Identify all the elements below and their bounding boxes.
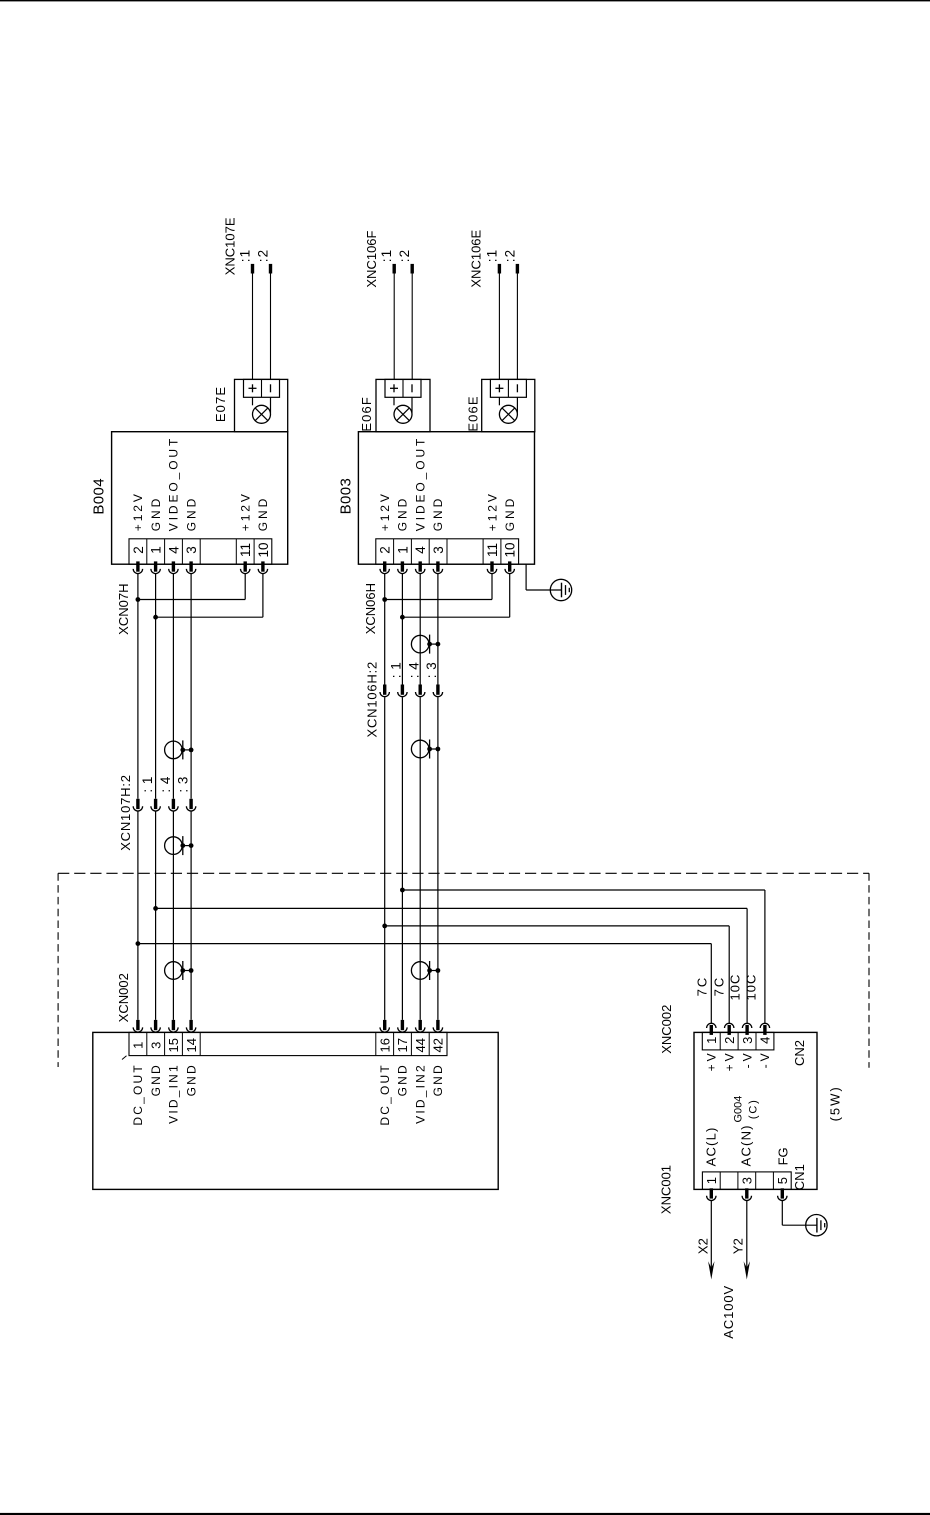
svg-text:AC(L): AC(L) xyxy=(704,1126,719,1166)
svg-text:+12V: +12V xyxy=(378,491,392,531)
svg-text:VID_IN2: VID_IN2 xyxy=(414,1063,428,1124)
svg-text:17: 17 xyxy=(395,1038,410,1052)
svg-text::1: :1 xyxy=(484,249,499,263)
svg-text::1: :1 xyxy=(379,249,394,263)
svg-text:3: 3 xyxy=(740,1177,755,1184)
svg-text:XNC001: XNC001 xyxy=(659,1165,674,1214)
svg-text:B003: B003 xyxy=(337,478,354,515)
svg-text:XCN07H: XCN07H xyxy=(116,584,131,635)
svg-text:(C): (C) xyxy=(748,1098,760,1119)
svg-text:7C: 7C xyxy=(711,976,726,997)
svg-text:XCN106H:2: XCN106H:2 xyxy=(365,661,380,738)
svg-text:3: 3 xyxy=(431,546,446,554)
svg-text:4: 4 xyxy=(413,546,428,554)
svg-text:GND: GND xyxy=(149,496,163,531)
svg-text:+12V: +12V xyxy=(131,491,145,531)
svg-text::1: :1 xyxy=(237,249,252,263)
svg-text:E07E: E07E xyxy=(213,386,228,422)
svg-text:4: 4 xyxy=(758,1037,773,1044)
svg-text:B004: B004 xyxy=(90,478,107,515)
svg-text:: 1: : 1 xyxy=(389,662,404,679)
svg-text:(5W): (5W) xyxy=(828,1085,843,1121)
svg-text:11: 11 xyxy=(485,543,500,557)
svg-text:GND: GND xyxy=(396,1063,410,1096)
svg-text:GND: GND xyxy=(184,496,198,531)
svg-text:AC100V: AC100V xyxy=(721,1285,736,1339)
svg-text:Y2: Y2 xyxy=(731,1238,746,1254)
svg-text:3: 3 xyxy=(148,1042,163,1049)
svg-text:X2: X2 xyxy=(696,1238,711,1254)
svg-text:10: 10 xyxy=(503,542,518,557)
svg-text:GND: GND xyxy=(184,1063,198,1096)
svg-text:DC_OUT: DC_OUT xyxy=(378,1063,392,1126)
svg-text:GND: GND xyxy=(149,1063,163,1096)
svg-text:XNC106E: XNC106E xyxy=(469,229,484,287)
svg-text:GND: GND xyxy=(503,496,517,531)
svg-text:XNC107E: XNC107E xyxy=(223,217,238,275)
svg-text:GND: GND xyxy=(396,496,410,531)
svg-text:E06F: E06F xyxy=(359,396,374,431)
svg-text:44: 44 xyxy=(413,1038,428,1052)
svg-text:+V: +V xyxy=(705,1051,719,1072)
svg-text:15: 15 xyxy=(166,1038,181,1052)
svg-text:: 1: : 1 xyxy=(140,776,155,793)
svg-text:14: 14 xyxy=(184,1038,199,1052)
svg-text:XCN002: XCN002 xyxy=(116,973,131,1022)
svg-text:42: 42 xyxy=(431,1038,446,1052)
svg-text:CN2: CN2 xyxy=(792,1040,807,1066)
svg-text:1: 1 xyxy=(149,546,164,554)
svg-text:10: 10 xyxy=(256,542,271,557)
svg-text:5: 5 xyxy=(775,1177,790,1184)
svg-text:1: 1 xyxy=(704,1037,719,1044)
svg-text:2: 2 xyxy=(131,546,146,554)
svg-text:XCN107H:2: XCN107H:2 xyxy=(118,774,133,851)
svg-text:GND: GND xyxy=(256,496,270,531)
svg-text:1: 1 xyxy=(131,1042,146,1049)
svg-text::2: :2 xyxy=(397,249,412,263)
svg-text:VID_IN1: VID_IN1 xyxy=(167,1063,181,1124)
svg-text:CN1: CN1 xyxy=(792,1164,807,1190)
svg-text:2: 2 xyxy=(722,1037,737,1044)
svg-text:11: 11 xyxy=(238,543,253,557)
svg-text:XNC002: XNC002 xyxy=(659,1005,674,1054)
svg-text:1: 1 xyxy=(395,546,410,554)
svg-text:E06E: E06E xyxy=(466,395,481,431)
svg-text:-V: -V xyxy=(740,1051,754,1069)
svg-text:10C: 10C xyxy=(728,974,743,1001)
svg-text:4: 4 xyxy=(166,546,181,554)
svg-text:: 4: : 4 xyxy=(407,662,422,679)
svg-text::2: :2 xyxy=(502,249,517,263)
svg-text:+V: +V xyxy=(723,1051,737,1072)
svg-text:3: 3 xyxy=(184,546,199,554)
svg-text:FG: FG xyxy=(775,1147,790,1165)
svg-text:: 4: : 4 xyxy=(158,776,173,793)
svg-text::2: :2 xyxy=(255,249,270,263)
svg-text:XCN06H: XCN06H xyxy=(363,583,378,634)
svg-text:10C: 10C xyxy=(744,974,759,1001)
svg-text:DC_OUT: DC_OUT xyxy=(131,1063,145,1126)
svg-text:1: 1 xyxy=(704,1177,719,1184)
svg-text:GND: GND xyxy=(431,496,445,531)
svg-text:: 3: : 3 xyxy=(176,776,191,793)
svg-text:AC(N): AC(N) xyxy=(739,1124,754,1166)
svg-text:-V: -V xyxy=(758,1051,772,1069)
svg-text:G004: G004 xyxy=(733,1096,745,1123)
svg-text:XNC106F: XNC106F xyxy=(364,230,379,287)
svg-text:3: 3 xyxy=(740,1037,755,1044)
svg-text:+12V: +12V xyxy=(485,491,499,531)
svg-text:16: 16 xyxy=(377,1038,392,1052)
svg-text:GND: GND xyxy=(431,1063,445,1096)
svg-text:+12V: +12V xyxy=(239,491,253,531)
svg-text:7C: 7C xyxy=(695,976,710,997)
svg-text:VIDEO_OUT: VIDEO_OUT xyxy=(414,436,428,531)
svg-text:2: 2 xyxy=(378,546,393,554)
svg-text:: 3: : 3 xyxy=(424,662,439,679)
svg-text:VIDEO_OUT: VIDEO_OUT xyxy=(167,436,181,531)
